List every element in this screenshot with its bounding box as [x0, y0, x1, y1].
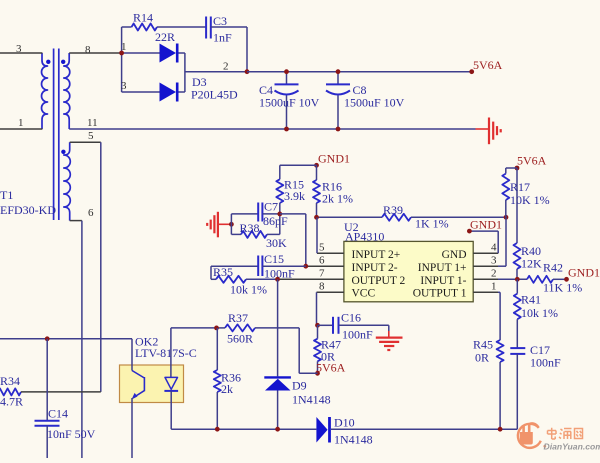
svg-text:R34: R34 [0, 374, 20, 388]
label C3 [213, 14, 227, 28]
U2 pin 2 stub [473, 278, 498, 280]
pin number 1 (primary bottom) [18, 117, 24, 129]
diode D3 top half [122, 44, 185, 63]
svg-text:1K 1%: 1K 1% [415, 217, 449, 231]
svg-text:DianYuan.com: DianYuan.com [544, 442, 600, 452]
transformer T1 secondary winding (pins 8-11) [61, 53, 70, 129]
svg-text:C7: C7 [264, 200, 278, 214]
label R45 [473, 338, 493, 365]
junction R36/rail [215, 427, 220, 432]
junction C4 bottom [284, 127, 289, 132]
label C17 [530, 343, 561, 370]
junction R45/rail [498, 427, 503, 432]
svg-text:LTV-817S-C: LTV-817S-C [135, 346, 197, 360]
junction R16/R39/pin5 [314, 215, 319, 220]
junction C8 top [336, 69, 341, 74]
resistor R47 [314, 325, 321, 373]
label D10 [334, 416, 373, 447]
label R38 [240, 221, 288, 250]
svg-text:1N4148: 1N4148 [334, 433, 373, 447]
resistor R39 [382, 214, 411, 221]
svg-text:5V6A: 5V6A [316, 361, 346, 375]
label R34 [0, 374, 23, 409]
label C15 [264, 252, 295, 281]
resistor R36 [214, 328, 221, 429]
junction pin8/C16/R47 [315, 323, 320, 328]
svg-text:D9: D9 [292, 379, 307, 393]
label 1nF [213, 31, 232, 45]
label R39 [383, 203, 449, 231]
wire pin6 horizontal [70, 220, 82, 222]
node 1 junction [119, 51, 124, 56]
junction pin7/R35/D9 [275, 277, 280, 282]
U2 pin 4 stub [473, 252, 498, 254]
pin number 8 (U2) [319, 281, 325, 293]
U2 pin 6 stub [306, 265, 344, 267]
resistor R15 [276, 179, 283, 203]
svg-text:D10: D10 [334, 416, 355, 430]
OK2 internal LED [164, 328, 178, 429]
svg-text:EFD30-KD: EFD30-KD [0, 203, 56, 217]
wire node1 to R14 [122, 26, 132, 28]
svg-text:10K 1%: 10K 1% [510, 193, 550, 207]
svg-text:2: 2 [223, 61, 229, 73]
svg-text:3.9k: 3.9k [284, 189, 305, 203]
diode D10 [316, 417, 329, 443]
capacitor C4 [275, 72, 299, 129]
svg-text:R45: R45 [473, 338, 493, 352]
svg-text:R17: R17 [510, 180, 530, 194]
U2 port INPUT 1- [420, 275, 466, 287]
label C14 [47, 407, 96, 442]
net label 5V6A (top) [469, 58, 502, 74]
optocoupler OK2 body [120, 365, 184, 403]
svg-text:10k 1%: 10k 1% [521, 306, 558, 320]
capacitor C8 [326, 72, 350, 129]
pin number 1 (D3) [121, 41, 127, 53]
pin number 7 (U2) [319, 268, 325, 280]
junction pin6/C15 [303, 264, 308, 269]
net label GND1 (right) [564, 266, 600, 282]
label R42 [543, 261, 582, 295]
resistor R40 [514, 168, 521, 279]
label R40 [521, 244, 542, 271]
transformer T1 primary winding (pins 3-1) [42, 53, 51, 129]
junction C14 column [45, 336, 50, 341]
svg-text:1500uF 10V: 1500uF 10V [259, 96, 320, 110]
resistor R37 [171, 324, 299, 331]
pin number 5 [88, 130, 94, 142]
svg-text:AP4310: AP4310 [345, 230, 384, 244]
capacitor C17 [510, 348, 525, 429]
pin number 6 [88, 207, 94, 219]
svg-text:3: 3 [491, 255, 497, 267]
wire 5V6A node to R37 [299, 328, 317, 373]
pin number 5 (U2) [319, 242, 325, 254]
label C4 [259, 83, 320, 110]
svg-text:11: 11 [87, 117, 98, 129]
svg-text:8: 8 [319, 281, 325, 293]
pin number 4 (U2) [491, 242, 497, 254]
node A junction (R17/R39/pin3) [504, 215, 509, 220]
U2 pin 5 stub [317, 217, 344, 253]
wire pin6 vertical down [81, 221, 83, 458]
svg-text:7: 7 [319, 268, 325, 280]
pin number 3 (D3) [121, 80, 127, 92]
svg-text:T1: T1 [0, 188, 13, 202]
svg-text:10nF 50V: 10nF 50V [47, 427, 96, 441]
junction ground node [229, 222, 234, 227]
resistor R34 [0, 388, 101, 395]
resistor R42 [527, 276, 567, 283]
transformer T1 core [54, 49, 59, 221]
label T1 [0, 188, 56, 217]
capacitor C3 [206, 17, 211, 39]
svg-text:30K: 30K [266, 236, 287, 250]
svg-text:GND1: GND1 [318, 152, 350, 166]
svg-text:6: 6 [88, 207, 94, 219]
resistor R38 [231, 214, 279, 238]
svg-text:C16: C16 [341, 311, 361, 325]
earth ground (left, mirrored) [207, 212, 231, 238]
label C7 [263, 200, 288, 229]
svg-text:86pF: 86pF [263, 214, 288, 228]
junction pin2/R40/R41 [515, 277, 520, 282]
svg-text:5V6A: 5V6A [517, 154, 547, 168]
label C8 [344, 83, 405, 110]
pin number 11 [87, 117, 98, 129]
pin number 8 [85, 44, 91, 56]
U2 port VCC [352, 288, 376, 300]
svg-text:GND: GND [442, 249, 467, 261]
label R35 [213, 265, 267, 297]
earth ground (below C16) [376, 325, 403, 350]
svg-text:3: 3 [121, 80, 127, 92]
svg-text:5: 5 [319, 242, 325, 254]
svg-text:GND1: GND1 [470, 218, 502, 232]
wire GND1 to R15 [280, 165, 317, 179]
svg-text:2: 2 [491, 268, 497, 280]
label U2 [344, 220, 384, 244]
wire pin3 to node A [498, 217, 506, 266]
node 2 junction [245, 69, 250, 74]
svg-text:5V6A: 5V6A [473, 58, 503, 72]
label OK2 [135, 335, 197, 361]
wire pin11 / bottom rail [69, 128, 475, 130]
svg-text:C15: C15 [264, 252, 284, 266]
svg-text:10k 1%: 10k 1% [230, 283, 267, 297]
label R14 [133, 11, 153, 25]
wire R14 to C3 [157, 26, 206, 28]
wire bottom rail (left) [171, 428, 316, 430]
label D9 [292, 379, 331, 407]
label D3 [191, 75, 238, 102]
label R47 [321, 338, 341, 364]
power ground (right of C8) [476, 118, 501, 145]
junction C8 bottom [336, 127, 341, 132]
svg-text:P20L45D: P20L45D [191, 88, 238, 102]
capacitor C14 [35, 339, 60, 458]
resistor R14 [132, 24, 157, 31]
label R17 [510, 180, 550, 207]
resistor R17 [502, 168, 517, 217]
svg-text:VCC: VCC [352, 288, 376, 300]
net label 5V6A (right) [515, 154, 547, 171]
resistor R41 [514, 279, 521, 348]
svg-text:560R: 560R [227, 332, 253, 346]
svg-text:5: 5 [88, 130, 94, 142]
svg-text:INPUT 2+: INPUT 2+ [352, 249, 401, 261]
U2 port INPUT 1+ [418, 262, 467, 274]
watermark logo [518, 423, 600, 451]
svg-text:1nF: 1nF [213, 31, 232, 45]
svg-text:22R: 22R [155, 30, 175, 44]
wire pin8 to node 1 [69, 52, 121, 54]
label 22R [155, 30, 175, 44]
capacitor C15 [211, 256, 306, 277]
svg-text:12K: 12K [521, 257, 542, 271]
junction C4 top [284, 69, 289, 74]
capacitor C16 [318, 317, 389, 334]
svg-text:2k: 2k [221, 382, 233, 396]
transformer T1 aux winding (pins 5-6) [61, 142, 70, 220]
resistor R16 [313, 165, 320, 217]
U2 port INPUT 2- [352, 262, 398, 274]
junction D9/rail [275, 427, 280, 432]
wire R16 bottom to R39 [317, 216, 383, 218]
svg-text:R38: R38 [240, 221, 260, 235]
wire bottom rail (right) [331, 428, 517, 430]
U2 port INPUT 2+ [352, 249, 401, 261]
wire D3 output to node 2 [185, 71, 247, 73]
node 1 vertical wire [121, 27, 123, 92]
svg-text:4.7R: 4.7R [0, 395, 23, 409]
wire D3 cathode bar [184, 53, 186, 92]
diode D3 bottom half [122, 83, 185, 102]
label R36 [221, 371, 241, 397]
U2 pin 8 stub [317, 292, 344, 325]
svg-text:1: 1 [491, 281, 497, 293]
pin number 6 (U2) [319, 255, 325, 267]
U2 pin 7 stub [278, 278, 344, 280]
svg-text:R39: R39 [383, 203, 403, 217]
wire pin3 to left edge [0, 52, 42, 54]
label R41 [521, 293, 558, 321]
wire pin4 to GND1 [469, 231, 498, 253]
svg-text:R37: R37 [228, 311, 248, 325]
svg-text:4: 4 [491, 242, 497, 254]
wire R15 to C7 node [279, 203, 281, 214]
svg-text:6: 6 [319, 255, 325, 267]
resistor R45 [497, 292, 504, 429]
svg-text:0R: 0R [475, 351, 489, 365]
svg-text:OUTPUT 2: OUTPUT 2 [352, 275, 406, 287]
svg-text:1N4148: 1N4148 [292, 393, 331, 407]
wire pin5 vertical down [100, 142, 102, 392]
label R37 [227, 311, 253, 346]
pin number 2 [223, 61, 229, 73]
label R16 [322, 180, 353, 206]
svg-text:OUTPUT 1: OUTPUT 1 [413, 288, 467, 300]
wire pin1 to left edge [0, 128, 42, 130]
label C16 [341, 311, 373, 342]
svg-text:R42: R42 [543, 261, 563, 275]
diode D9 [264, 279, 291, 429]
wire pin5 horizontal [70, 141, 101, 143]
label R15 [284, 178, 305, 204]
wire pin2 to R42 [498, 278, 527, 280]
svg-text:GND1: GND1 [568, 266, 600, 280]
capacitor C7 [231, 203, 279, 222]
U2 port GND [442, 249, 467, 261]
OK2 phototransistor [132, 371, 145, 400]
svg-text:2k 1%: 2k 1% [322, 192, 353, 206]
svg-text:R41: R41 [521, 293, 541, 307]
svg-text:1500uF 10V: 1500uF 10V [344, 96, 405, 110]
U2 pin 1 stub [473, 291, 498, 293]
wire opto collector [0, 339, 132, 371]
net label 5V6A (R47 bottom) [315, 361, 346, 376]
junction R37/R36/opto [214, 326, 219, 331]
pin number 3 (U2) [491, 255, 497, 267]
wire top rail 5V6A [247, 71, 472, 73]
svg-text:INPUT 2-: INPUT 2- [352, 262, 398, 274]
svg-text:8: 8 [85, 44, 91, 56]
pin number 3 (primary top) [16, 43, 22, 55]
resistor R35 [211, 266, 278, 283]
wire opto emitter down [131, 398, 133, 458]
svg-text:R14: R14 [133, 11, 153, 25]
pin number 2 (U2) [491, 268, 497, 280]
wire C3 to node 2 [211, 27, 247, 72]
svg-text:11K 1%: 11K 1% [543, 281, 582, 295]
net label GND1 (top) [314, 152, 350, 168]
svg-text:C3: C3 [213, 14, 227, 28]
U2 pin 3 stub [473, 265, 498, 267]
wire R39 to node A [411, 216, 506, 218]
wire ground node verticals [230, 214, 232, 235]
svg-text:100nF: 100nF [530, 356, 561, 370]
U2 port OUTPUT 1 [413, 288, 467, 300]
svg-text:100nF: 100nF [342, 328, 373, 342]
op-amp U2 body [344, 241, 473, 301]
svg-text:INPUT 1-: INPUT 1- [420, 275, 466, 287]
pin number 1 (U2) [491, 281, 497, 293]
junction R15/C7 node [277, 212, 282, 217]
U2 port OUTPUT 2 [352, 275, 406, 287]
svg-text:R35: R35 [213, 265, 233, 279]
wire C7 node to pin6 column [280, 214, 306, 266]
svg-text:C14: C14 [48, 407, 68, 421]
svg-text:INPUT 1+: INPUT 1+ [418, 262, 467, 274]
svg-text:1: 1 [18, 117, 24, 129]
net label GND1 (U2 pin4) [467, 218, 502, 234]
